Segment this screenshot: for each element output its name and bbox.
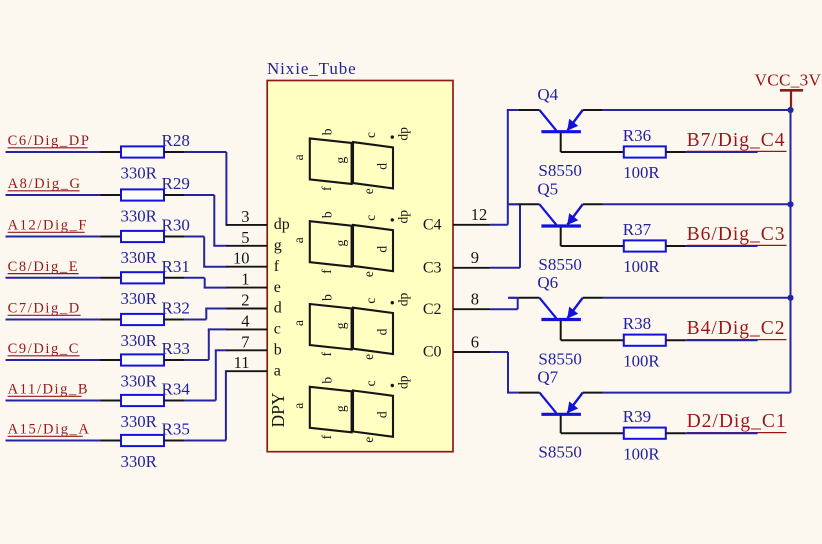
wire net Dig_E from port to R31 bbox=[6, 277, 101, 279]
net label C6/Dig_DP bbox=[8, 133, 91, 149]
pin 11 (a) of Nixie_Tube bbox=[227, 353, 281, 379]
svg-text:a: a bbox=[274, 362, 281, 379]
svg-text:R33: R33 bbox=[162, 339, 190, 358]
svg-text:e: e bbox=[274, 279, 281, 296]
svg-text:e: e bbox=[361, 354, 376, 360]
resistor R36 bbox=[624, 146, 666, 157]
value 330R of R30 bbox=[121, 248, 158, 267]
svg-text:C0: C0 bbox=[423, 344, 442, 361]
resistor R35 bbox=[121, 435, 164, 446]
svg-text:A12/Dig_F: A12/Dig_F bbox=[8, 218, 88, 234]
pin 3 (dp) of Nixie_Tube bbox=[227, 207, 290, 233]
svg-text:330R: 330R bbox=[121, 163, 158, 182]
designator R28 bbox=[162, 131, 190, 150]
wire net Dig_F from port to R30 bbox=[6, 236, 101, 238]
component U DPY Nixie_Tube box bbox=[267, 81, 453, 452]
wire net Dig_E from R31 to pin 1 (e) bbox=[184, 278, 227, 288]
svg-text:g: g bbox=[333, 239, 348, 246]
svg-text:R35: R35 bbox=[162, 420, 190, 439]
value 330R of R31 bbox=[121, 289, 158, 308]
value 330R of R33 bbox=[121, 371, 158, 390]
svg-text:c: c bbox=[363, 132, 378, 138]
R28 right lead bbox=[164, 151, 184, 153]
Q4 collector lead bbox=[518, 109, 539, 111]
7-segment digit glyph 1 bbox=[291, 127, 411, 194]
net label A15/Dig_A bbox=[8, 422, 91, 438]
svg-text:f: f bbox=[319, 186, 334, 191]
wire net Dig_DP from port to R28 bbox=[6, 151, 101, 153]
net label B6/Dig_C3 underline bbox=[687, 244, 787, 246]
svg-text:f: f bbox=[319, 269, 334, 274]
net label C8/Dig_E bbox=[8, 259, 80, 275]
svg-text:d: d bbox=[274, 300, 282, 317]
svg-text:12: 12 bbox=[471, 205, 488, 224]
svg-text:f: f bbox=[319, 352, 334, 357]
svg-text:R29: R29 bbox=[162, 174, 190, 193]
R37 right lead bbox=[666, 245, 686, 247]
svg-text:d: d bbox=[374, 163, 389, 170]
svg-text:R39: R39 bbox=[623, 407, 651, 426]
R33 right lead bbox=[164, 359, 184, 361]
net label D2/Dig_C1 underline bbox=[687, 432, 787, 434]
transistor Q7 S8550 PNP bbox=[540, 393, 583, 415]
value 330R of R35 bbox=[121, 452, 158, 471]
svg-text:a: a bbox=[291, 154, 306, 160]
wire net Dig_G from port to R29 bbox=[6, 194, 101, 196]
wire net C4 from pin 12 to transistor collector bbox=[490, 110, 509, 225]
svg-text:A11/Dig_B: A11/Dig_B bbox=[8, 382, 90, 398]
Q6 emitter lead bbox=[583, 297, 603, 299]
svg-text:dp: dp bbox=[396, 127, 411, 141]
svg-text:S8550: S8550 bbox=[538, 255, 581, 274]
wire net Dig_B from R34 to pin 7 (b) bbox=[184, 350, 227, 400]
value 330R of R29 bbox=[121, 206, 158, 225]
svg-text:7: 7 bbox=[241, 332, 249, 351]
svg-text:330R: 330R bbox=[121, 331, 158, 350]
designator Q4 bbox=[537, 85, 558, 104]
pin 5 (g) of Nixie_Tube bbox=[227, 228, 282, 254]
Q7 collector lead bbox=[518, 392, 539, 394]
designator label Nixie_Tube bbox=[267, 59, 357, 78]
svg-text:A15/Dig_A: A15/Dig_A bbox=[8, 422, 91, 438]
wire collector of Q5 bbox=[508, 203, 518, 205]
svg-text:8: 8 bbox=[471, 290, 479, 309]
7-segment digit glyph 3 bbox=[291, 293, 411, 360]
resistor R30 bbox=[121, 231, 164, 242]
svg-text:d: d bbox=[374, 328, 389, 335]
wire collector of Q6 bbox=[508, 297, 518, 299]
svg-text:c: c bbox=[274, 321, 281, 338]
R32 right lead bbox=[164, 319, 184, 321]
designator Q6 bbox=[537, 273, 558, 292]
resistor R34 bbox=[121, 395, 164, 406]
svg-text:d: d bbox=[374, 246, 389, 253]
resistor R29 bbox=[121, 189, 164, 200]
value 330R of R32 bbox=[121, 331, 158, 350]
R32 left lead bbox=[101, 319, 122, 321]
value 100R of R37 bbox=[623, 257, 660, 276]
R35 right lead bbox=[164, 440, 184, 442]
R31 left lead bbox=[101, 277, 122, 279]
svg-text:C4: C4 bbox=[423, 216, 442, 233]
svg-text:b: b bbox=[320, 377, 335, 384]
R38 right lead bbox=[666, 339, 686, 341]
value 100R of R38 bbox=[623, 351, 660, 370]
svg-text:330R: 330R bbox=[121, 452, 158, 471]
net label A11/Dig_B bbox=[8, 382, 90, 398]
Q4 base lead bbox=[561, 133, 624, 152]
wire net C3 from pin 9 to transistor collector bbox=[490, 204, 520, 267]
svg-text:S8550: S8550 bbox=[538, 442, 581, 461]
7-segment digit glyph 4 bbox=[291, 375, 411, 442]
svg-text:C7/Dig_D: C7/Dig_D bbox=[8, 301, 81, 317]
net label B7/Dig_C4 bbox=[687, 130, 786, 151]
wire net Dig_C from port to R33 bbox=[6, 359, 101, 361]
R34 left lead bbox=[101, 400, 122, 402]
designator R39 bbox=[623, 407, 651, 426]
pin 1 (e) of Nixie_Tube bbox=[227, 270, 281, 296]
svg-text:g: g bbox=[333, 157, 348, 164]
svg-text:330R: 330R bbox=[121, 412, 158, 431]
Q6 base lead bbox=[561, 321, 624, 341]
wire net D2/Dig_C1 stub bbox=[686, 432, 758, 434]
svg-text:B6/Dig_C3: B6/Dig_C3 bbox=[687, 224, 786, 245]
wire net B4/Dig_C2 stub bbox=[686, 339, 758, 341]
R34 right lead bbox=[164, 400, 184, 402]
R29 right lead bbox=[164, 194, 184, 196]
value 330R of R34 bbox=[121, 412, 158, 431]
svg-text:dp: dp bbox=[396, 293, 411, 307]
svg-text:A8/Dig_G: A8/Dig_G bbox=[8, 176, 82, 192]
net label VCC_3V3 bbox=[755, 71, 822, 90]
svg-text:R30: R30 bbox=[162, 216, 190, 235]
wire net Dig_A from port to R35 bbox=[6, 440, 101, 442]
value 330R of R28 bbox=[121, 163, 158, 182]
svg-text:100R: 100R bbox=[623, 351, 660, 370]
pin 7 (b) of Nixie_Tube bbox=[227, 332, 282, 358]
svg-text:g: g bbox=[333, 405, 348, 412]
svg-text:4: 4 bbox=[241, 311, 249, 330]
resistor R38 bbox=[624, 335, 666, 346]
svg-text:c: c bbox=[363, 380, 378, 386]
svg-text:Q5: Q5 bbox=[537, 179, 558, 198]
Q4 emitter lead bbox=[583, 109, 603, 111]
designator R37 bbox=[623, 220, 652, 239]
wire net Dig_A from R35 to pin 11 (a) bbox=[184, 371, 227, 440]
svg-text:b: b bbox=[274, 342, 282, 359]
wire net C0 from pin 6 to transistor collector bbox=[490, 352, 509, 393]
Q6 collector lead bbox=[518, 297, 539, 299]
pin 6 (C0) of Nixie_Tube bbox=[423, 332, 490, 360]
wire net C2 from pin 8 to transistor collector bbox=[490, 298, 518, 309]
svg-text:B7/Dig_C4: B7/Dig_C4 bbox=[687, 130, 786, 151]
value 100R of R36 bbox=[623, 163, 660, 182]
wire collector of Q4 bbox=[508, 109, 518, 111]
R30 right lead bbox=[164, 236, 184, 238]
svg-text:e: e bbox=[361, 271, 376, 277]
R39 right lead bbox=[666, 432, 686, 434]
svg-text:C9/Dig_C: C9/Dig_C bbox=[8, 341, 80, 357]
wire net Dig_D from R32 to pin 2 (d) bbox=[184, 309, 227, 320]
svg-text:330R: 330R bbox=[121, 371, 158, 390]
svg-text:2: 2 bbox=[241, 291, 249, 310]
svg-text:R37: R37 bbox=[623, 220, 652, 239]
svg-text:f: f bbox=[274, 258, 280, 275]
svg-text:e: e bbox=[361, 437, 376, 443]
net label B7/Dig_C4 underline bbox=[687, 150, 787, 152]
resistor R39 bbox=[624, 428, 666, 439]
net label C7/Dig_D bbox=[8, 301, 81, 317]
svg-text:11: 11 bbox=[234, 353, 250, 372]
svg-text:R34: R34 bbox=[162, 380, 191, 399]
svg-text:9: 9 bbox=[471, 248, 479, 267]
svg-text:330R: 330R bbox=[121, 289, 158, 308]
svg-text:3: 3 bbox=[241, 207, 249, 226]
svg-text:B4/Dig_C2: B4/Dig_C2 bbox=[687, 318, 786, 339]
resistor R28 bbox=[121, 146, 164, 157]
svg-text:dp: dp bbox=[396, 375, 411, 389]
Q5 base lead bbox=[561, 227, 624, 246]
svg-text:b: b bbox=[320, 211, 335, 218]
wire net Dig_C from R33 to pin 4 (c) bbox=[184, 329, 227, 360]
transistor Q4 S8550 PNP bbox=[540, 110, 583, 132]
designator R31 bbox=[162, 257, 190, 276]
resistor R37 bbox=[624, 240, 666, 251]
R29 left lead bbox=[101, 194, 122, 196]
wire net B6/Dig_C3 stub bbox=[686, 245, 758, 247]
junction on VCC bus y=297.8 bbox=[787, 295, 793, 301]
value S8550 of Q7 bbox=[538, 442, 581, 461]
svg-text:b: b bbox=[320, 128, 335, 135]
svg-text:Q4: Q4 bbox=[537, 85, 558, 104]
wire collector of Q7 bbox=[508, 392, 518, 394]
net label B4/Dig_C2 bbox=[687, 318, 786, 339]
designator Q7 bbox=[537, 368, 558, 387]
wire VCC bus vertical bbox=[790, 108, 792, 393]
R36 right lead bbox=[666, 151, 686, 153]
designator R33 bbox=[162, 339, 190, 358]
designator Q5 bbox=[537, 179, 558, 198]
wire emitter of Q5 to VCC bus bbox=[603, 203, 791, 205]
wire net Dig_F from R30 to pin 10 (f) bbox=[184, 237, 227, 267]
wire emitter of Q4 to VCC bus bbox=[603, 109, 791, 111]
svg-text:C3: C3 bbox=[423, 259, 442, 276]
svg-text:S8550: S8550 bbox=[538, 349, 581, 368]
svg-text:dp: dp bbox=[274, 216, 290, 233]
junction on VCC bus y=110 bbox=[787, 107, 793, 113]
Q5 emitter lead bbox=[583, 203, 603, 205]
Q7 emitter lead bbox=[583, 392, 603, 394]
wire emitter of Q6 to VCC bus bbox=[603, 297, 791, 299]
designator R35 bbox=[162, 420, 190, 439]
svg-text:D2/Dig_C1: D2/Dig_C1 bbox=[687, 411, 787, 432]
svg-text:Q6: Q6 bbox=[537, 273, 558, 292]
wire emitter of Q7 to VCC bus bbox=[603, 392, 791, 394]
net label B4/Dig_C2 underline bbox=[687, 339, 787, 341]
net label B6/Dig_C3 bbox=[687, 224, 786, 245]
resistor R31 bbox=[121, 272, 164, 283]
value S8550 of Q5 bbox=[538, 255, 581, 274]
wire net Dig_B from port to R34 bbox=[6, 400, 101, 402]
svg-text:R28: R28 bbox=[162, 131, 190, 150]
svg-text:Nixie_Tube: Nixie_Tube bbox=[267, 59, 357, 78]
designator R29 bbox=[162, 174, 190, 193]
wire net Dig_DP from R28 to pin 3 (dp) bbox=[184, 152, 227, 225]
svg-text:c: c bbox=[363, 298, 378, 304]
net label A12/Dig_F bbox=[8, 218, 88, 234]
svg-text:C8/Dig_E: C8/Dig_E bbox=[8, 259, 80, 275]
svg-text:c: c bbox=[363, 215, 378, 221]
designator R34 bbox=[162, 380, 191, 399]
svg-text:R31: R31 bbox=[162, 257, 190, 276]
svg-text:1: 1 bbox=[241, 270, 249, 289]
svg-text:100R: 100R bbox=[623, 163, 660, 182]
designator R36 bbox=[623, 126, 651, 145]
net label A8/Dig_G bbox=[8, 176, 82, 192]
power symbol VCC_3V3 bbox=[780, 90, 803, 107]
transistor Q6 S8550 PNP bbox=[540, 298, 583, 320]
svg-text:R32: R32 bbox=[162, 299, 190, 318]
pin 9 (C3) of Nixie_Tube bbox=[423, 248, 490, 276]
transistor Q5 S8550 PNP bbox=[540, 204, 583, 226]
R30 left lead bbox=[101, 236, 122, 238]
Q5 collector lead bbox=[518, 203, 539, 205]
junction on VCC bus y=204.3 bbox=[787, 201, 793, 207]
svg-text:C6/Dig_DP: C6/Dig_DP bbox=[8, 133, 91, 149]
part name DPY (rotated) bbox=[268, 392, 288, 427]
svg-text:a: a bbox=[291, 403, 306, 409]
svg-text:a: a bbox=[291, 237, 306, 243]
R31 right lead bbox=[164, 277, 184, 279]
pin 2 (d) of Nixie_Tube bbox=[227, 291, 282, 317]
svg-text:330R: 330R bbox=[121, 248, 158, 267]
R35 left lead bbox=[101, 440, 122, 442]
net label D2/Dig_C1 bbox=[687, 411, 787, 432]
svg-text:d: d bbox=[374, 411, 389, 418]
resistor R32 bbox=[121, 314, 164, 325]
designator R30 bbox=[162, 216, 190, 235]
svg-text:S8550: S8550 bbox=[538, 161, 581, 180]
net label C9/Dig_C bbox=[8, 341, 80, 357]
value S8550 of Q4 bbox=[538, 161, 581, 180]
svg-text:10: 10 bbox=[233, 249, 250, 268]
svg-text:VCC_3V3: VCC_3V3 bbox=[755, 71, 822, 90]
svg-text:g: g bbox=[333, 322, 348, 329]
designator R32 bbox=[162, 299, 190, 318]
svg-text:Q7: Q7 bbox=[537, 368, 558, 387]
svg-text:f: f bbox=[319, 434, 334, 439]
R33 left lead bbox=[101, 359, 122, 361]
svg-text:R36: R36 bbox=[623, 126, 651, 145]
pin 4 (c) of Nixie_Tube bbox=[227, 311, 281, 337]
wire net B7/Dig_C4 stub bbox=[686, 151, 758, 153]
svg-text:a: a bbox=[291, 320, 306, 326]
svg-text:dp: dp bbox=[396, 210, 411, 224]
designator R38 bbox=[623, 314, 651, 333]
svg-text:R38: R38 bbox=[623, 314, 651, 333]
resistor R33 bbox=[121, 354, 164, 365]
wire net Dig_D from port to R32 bbox=[6, 319, 101, 321]
svg-text:100R: 100R bbox=[623, 257, 660, 276]
svg-text:6: 6 bbox=[471, 332, 479, 351]
pin 8 (C2) of Nixie_Tube bbox=[423, 290, 490, 318]
pin 12 (C4) of Nixie_Tube bbox=[423, 205, 490, 233]
value S8550 of Q6 bbox=[538, 349, 581, 368]
Q7 base lead bbox=[561, 416, 624, 434]
7-segment digit glyph 2 bbox=[291, 210, 411, 277]
value 100R of R39 bbox=[623, 444, 660, 463]
svg-text:DPY: DPY bbox=[268, 392, 288, 427]
svg-text:e: e bbox=[361, 188, 376, 194]
svg-text:C2: C2 bbox=[423, 301, 442, 318]
wire net Dig_G from R29 to pin 5 (g) bbox=[184, 195, 227, 246]
svg-text:5: 5 bbox=[241, 228, 249, 247]
svg-text:330R: 330R bbox=[121, 206, 158, 225]
svg-text:b: b bbox=[320, 294, 335, 301]
pin 10 (f) of Nixie_Tube bbox=[227, 249, 280, 275]
svg-text:g: g bbox=[274, 237, 282, 254]
R28 left lead bbox=[101, 151, 122, 153]
svg-text:100R: 100R bbox=[623, 444, 660, 463]
